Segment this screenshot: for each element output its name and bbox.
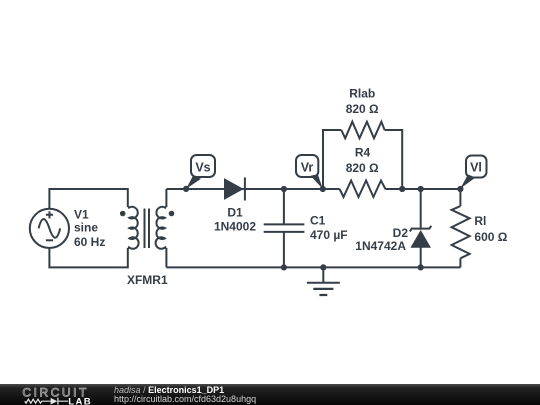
svg-text:Vl: Vl [470, 161, 482, 175]
svg-text:sine: sine [74, 221, 98, 235]
svg-text:Rl: Rl [474, 214, 486, 228]
svg-text:XFMR1: XFMR1 [127, 273, 168, 287]
svg-text:470 µF: 470 µF [310, 228, 348, 242]
svg-text:D2: D2 [393, 226, 409, 240]
svg-text:V1: V1 [74, 207, 89, 221]
svg-text:C1: C1 [310, 214, 326, 228]
svg-text:Rlab: Rlab [349, 87, 375, 101]
svg-text:1N4742A: 1N4742A [355, 239, 406, 253]
svg-text:R4: R4 [355, 146, 371, 160]
svg-text:600 Ω: 600 Ω [474, 230, 507, 244]
svg-text:820 Ω: 820 Ω [346, 161, 379, 175]
svg-text:60 Hz: 60 Hz [74, 235, 105, 249]
svg-text:Vr: Vr [301, 161, 314, 175]
svg-text:1N4002: 1N4002 [214, 220, 256, 234]
svg-text:D1: D1 [227, 205, 243, 219]
svg-text:Vs: Vs [195, 161, 210, 175]
svg-text:LAB: LAB [68, 396, 92, 405]
svg-text:820 Ω: 820 Ω [346, 102, 379, 116]
